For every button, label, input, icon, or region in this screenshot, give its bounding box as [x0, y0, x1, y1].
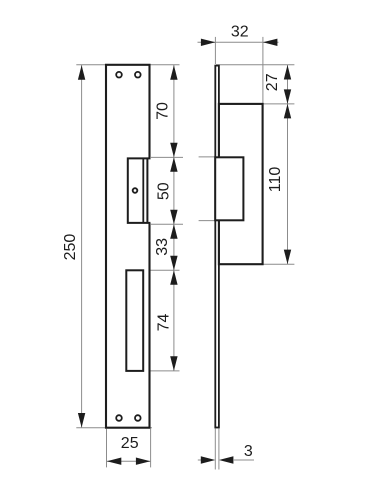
extension line slot bottom (y=370.9): [144, 370, 180, 372]
arrow pair at 103.9: [284, 89, 291, 104]
extension line bottom of plate (y=427.7): [76, 427, 152, 429]
extension line keeper bottom side (y=220.6): [199, 220, 216, 222]
keeper screw hole: [133, 188, 138, 193]
extension line top of side bar for 27 dim: [216, 64, 294, 66]
extension line slot top (y=270.3): [144, 269, 180, 271]
arrow 70 top: [170, 65, 177, 80]
arrow pair at 157.3: [170, 143, 177, 158]
arrow 3 right (points left): [219, 456, 234, 463]
mounting hole top-right: [135, 72, 141, 78]
arrow 32 left (points right, outside): [201, 39, 216, 46]
side view keeper box: [215, 157, 243, 220]
extension lines below side bar for 3 dim: [214, 429, 216, 470]
extension line keeper bottom front (y=224.2): [151, 223, 183, 225]
arrow 74 bottom: [170, 356, 177, 371]
keeper box front view: [128, 158, 151, 223]
dimension 32 line: [198, 41, 279, 43]
arrow pair at 270.3: [170, 256, 177, 270]
front view plate outline: [106, 65, 150, 428]
svg-text:25: 25: [121, 435, 139, 452]
dimension 3 line left tail: [198, 459, 201, 461]
keeper box inner line: [142, 158, 144, 223]
side view faceplate bar: [215, 66, 219, 428]
arrow 250 bottom: [78, 413, 85, 428]
arrow 25 right (points right): [136, 458, 151, 465]
svg-text:27: 27: [264, 73, 281, 91]
white gap in plate right edge at keeper: [148, 160, 152, 223]
mounting hole bottom-right: [135, 415, 141, 421]
arrow 110 bottom: [284, 250, 291, 265]
svg-text:3: 3: [244, 443, 253, 460]
extension line box bottom right (y=264.2): [263, 263, 295, 265]
extension line keeper top front (y=157.4): [151, 156, 183, 158]
arrow pair at 224.2: [170, 210, 177, 225]
svg-text:110: 110: [267, 167, 284, 193]
side view lock body box: [219, 104, 263, 264]
svg-text:32: 32: [231, 24, 249, 41]
dimension 3 line right tail: [233, 459, 254, 461]
arrow 3 left (points right): [201, 456, 216, 463]
svg-text:50: 50: [156, 182, 173, 200]
arrow 27 top: [284, 65, 291, 80]
keeper box right edge: [146, 158, 148, 223]
mounting hole bottom-left: [116, 415, 122, 421]
arrow 250 top: [78, 65, 85, 80]
dimension line 250: [81, 65, 83, 428]
svg-text:74: 74: [156, 314, 173, 332]
dimension line 27/110: [287, 65, 289, 264]
dimension line chain 70/50/33/74: [173, 65, 175, 371]
arrow 25 left (points left): [107, 458, 122, 465]
extension lines for 32 dim: [214, 37, 216, 64]
latch slot front view: [126, 270, 143, 371]
svg-text:250: 250: [62, 234, 79, 261]
extension lines below plate for 25 dim: [106, 429, 108, 468]
svg-text:70: 70: [155, 102, 172, 120]
extension line box top right (y=103.9): [263, 103, 295, 105]
mounting hole top-left: [116, 72, 122, 78]
extension line keeper top side (y=156.9): [199, 156, 216, 158]
extension line top (y=64.8 left of views): [76, 64, 179, 66]
arrow 32 right (points left, outside): [263, 39, 278, 46]
dimension 25 line: [107, 460, 151, 462]
svg-text:33: 33: [154, 238, 171, 256]
